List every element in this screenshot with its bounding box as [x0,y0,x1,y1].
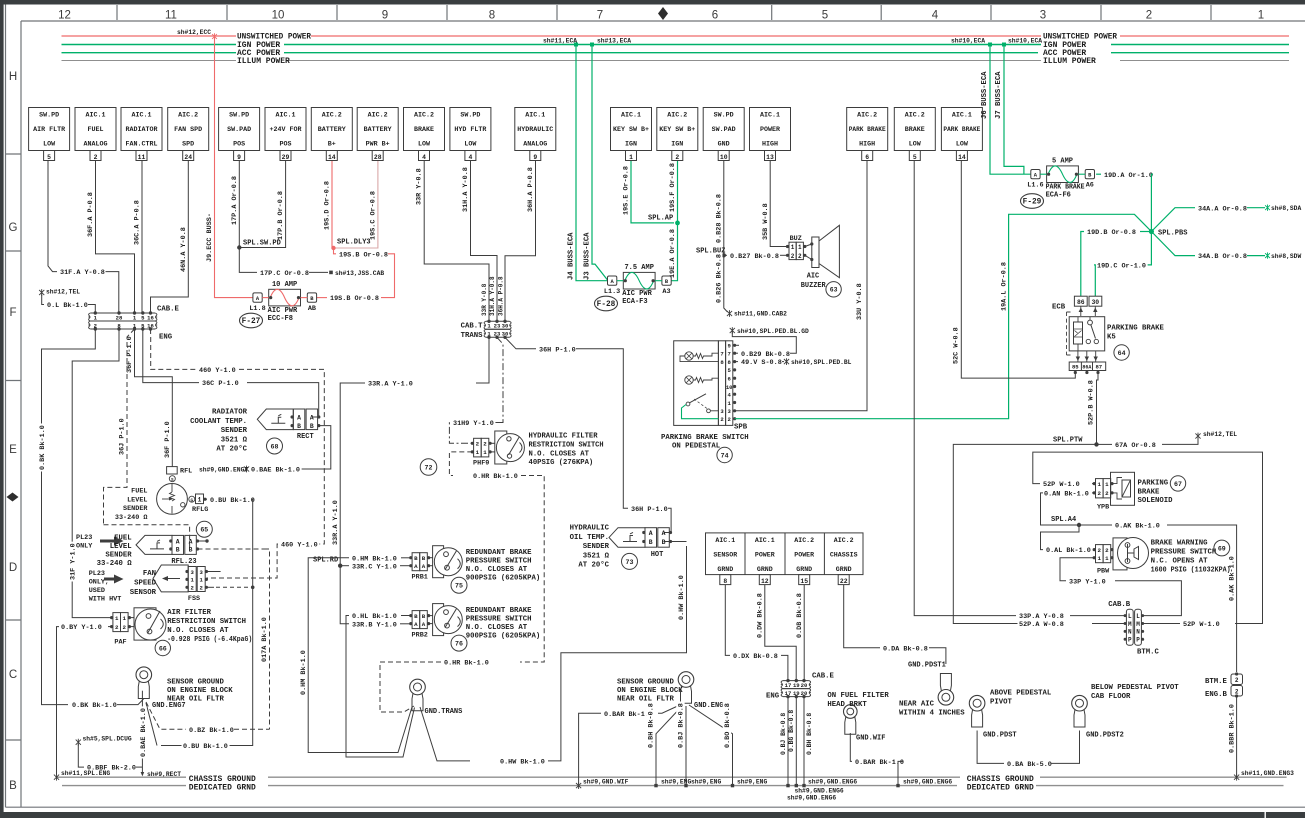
svg-text:POS: POS [280,141,292,148]
wire 0.AL to PBW pin2 [1093,549,1095,551]
label 52P W-1.0 right [1182,620,1222,628]
wire 0.HW to oil temp pin B [665,541,687,543]
node sh#9,GND.ENG6 markers (three wires) [786,784,789,787]
label 19D.A Or-1.0 [1103,170,1155,178]
wire 460 Y-1.0 dashed from CAB.E pin16 [151,329,197,369]
svg-text:SPL.PTW: SPL.PTW [1053,436,1083,444]
svg-text:28: 28 [116,314,123,321]
svg-text:30: 30 [1091,299,1099,306]
svg-text:PL23: PL23 [76,534,92,542]
relay K5 coil [1074,322,1083,344]
svg-text:B: B [189,546,193,553]
svg-text:5 AMP: 5 AMP [1052,158,1073,166]
svg-text:BELOW PEDESTAL PIVOT: BELOW PEDESTAL PIVOT [1091,684,1179,692]
circle ref 63 [826,282,841,297]
svg-text:sh#5,SPL.DCUG: sh#5,SPL.DCUG [83,736,132,743]
label 0.BA Bk-5.0 [1006,759,1054,767]
wire 0.BA to GND.PDST2 [1051,731,1080,764]
junction SPL.AP [675,221,680,226]
wire 33R.C Y-1.0 [340,565,349,567]
svg-text:N.O. CLOSES AT: N.O. CLOSES AT [167,627,229,635]
radiator coolant temp sender (68) RECT [257,409,293,430]
label 33R.A Y-1.0 [367,379,415,387]
svg-text:SW.PD: SW.PD [229,112,249,119]
svg-text:AIC.1: AIC.1 [525,112,545,119]
wire 19S.B Or-0.8 splice to corner (red) [334,248,337,254]
wire 0.BU Bk-1.0 from RFLG [205,498,207,500]
svg-text:PIVOT: PIVOT [990,698,1013,706]
wire SPL.PTW horizontal left [953,444,1096,623]
svg-text:0.HW Bk-1.0: 0.HW Bk-1.0 [500,759,545,767]
redundant brake pressure switch body (76) [433,604,444,636]
svg-text:FUEL: FUEL [131,488,147,496]
wire 52P W-1.0 into YPB pin1 [1092,483,1094,485]
wire 0.BA Bk-5.0 [977,731,1004,764]
svg-text:A: A [189,538,193,545]
circle ref 65 [196,521,212,537]
svg-text:N: N [1128,629,1132,636]
svg-text:17P.A Or-0.8: 17P.A Or-0.8 [231,176,239,225]
label 19D.B Or-0.8 [1086,228,1138,236]
svg-text:ANALOG: ANALOG [84,141,108,148]
svg-text:N.O. CLOSES AT: N.O. CLOSES AT [529,450,590,458]
svg-text:POWER: POWER [760,126,780,133]
ground terminal GND.ENG7 [136,667,152,683]
svg-text:KEY SW B+: KEY SW B+ [613,126,649,133]
wire 0.B26 Bk-0.8 to GND.CAB2 [724,255,728,312]
svg-text:0.DX Bk-0.8: 0.DX Bk-0.8 [733,653,778,661]
ground terminal GND.WIF [844,705,858,719]
label 0.B29 Bk-0.8 [740,349,792,357]
svg-text:SENSOR: SENSOR [713,552,737,559]
svg-text:ILLUM POWER: ILLUM POWER [1043,57,1096,66]
svg-text:1: 1 [115,615,119,622]
svg-text:AT 20°C: AT 20°C [216,445,247,454]
label 0.BU Bk-1.0 lower [182,742,230,750]
svg-text:PARK BRAKE: PARK BRAKE [849,126,886,133]
wire 17P.C Or-0.8 down from splice [239,248,257,273]
svg-text:900PSIG (6205KPA): 900PSIG (6205KPA) [466,575,540,583]
wire 0.HL left and down [346,616,415,758]
wire 31H9 Y-1.0 to PHF9 [449,423,501,444]
svg-text:PWR B+: PWR B+ [366,141,390,148]
svg-text:AT 20°C: AT 20°C [578,561,609,570]
svg-text:N.C. OPENS AT: N.C. OPENS AT [1151,558,1209,566]
svg-text:PRESSURE SWITCH: PRESSURE SWITCH [466,558,532,566]
svg-text:GND.PDST2: GND.PDST2 [1086,732,1124,740]
node sh#12,TEL marker left [39,289,44,296]
svg-text:L1.6: L1.6 [1027,182,1043,190]
svg-text:C: C [9,669,17,681]
svg-text:ECA-F3: ECA-F3 [622,298,647,306]
svg-text:LOW: LOW [43,141,55,148]
svg-text:SPL.A4: SPL.A4 [1051,516,1076,524]
wire 0.DW Bk-0.8 from POWER GRND pin12 [765,585,796,681]
svg-text:BATTERY: BATTERY [364,126,392,133]
svg-text:IGN: IGN [671,141,683,148]
node sh#9,RECT ref [141,772,145,776]
wire PHF9 pin1 to body [491,451,495,453]
node sh#8,SDA [1265,205,1270,211]
svg-text:sh#10,SPL.PED.BL: sh#10,SPL.PED.BL [791,359,852,366]
wire 52P W-1.0 from CAB.B pin M right [1144,623,1181,625]
wire 31F.A continues to CAB.E pin 28 [106,272,119,313]
svg-text:10 AMP: 10 AMP [272,281,297,289]
svg-text:GND.WIF: GND.WIF [856,735,885,743]
wire 67A to sh#12,TEL [1162,438,1198,444]
svg-text:FSS: FSS [188,595,200,603]
svg-text:PARKING: PARKING [1138,480,1169,488]
wire 0.BU diagonal into GND.ENG7 [146,703,157,746]
svg-text:AIC.1: AIC.1 [952,112,972,119]
svg-text:M: M [1136,621,1140,628]
wire 19S.F Or-0.8 from KEY SW B+ (AIC.2) [677,161,679,223]
svg-text:AIC.2: AIC.2 [414,112,434,119]
svg-text:PARK BRAKE: PARK BRAKE [1046,183,1085,191]
svg-text:33R.A Y-1.0: 33R.A Y-1.0 [332,500,340,545]
svg-text:sh#10,ECA: sh#10,ECA [1008,38,1042,45]
node sh#13,JSS.CAB [329,271,333,275]
node sh#10,SPL.PED.BL [784,358,789,365]
svg-text:63: 63 [830,287,838,294]
wire 0.HW Bk-1.0 from GND.TRANS [420,707,470,761]
connector SPB pin strip [718,341,725,426]
svg-text:F-27: F-27 [242,318,261,326]
wire 17P.B Or-0.8 from +24V FOR [239,161,285,248]
junction SPL.RD [338,564,342,568]
svg-text:sh#10,SPL.PED.BL.GD: sh#10,SPL.PED.BL.GD [737,328,809,335]
svg-text:A: A [414,621,418,628]
svg-text:31H.A Y-0.8: 31H.A Y-0.8 [489,276,496,316]
border frame dark bars [0,0,1305,5]
svg-text:34A.A Or-0.8: 34A.A Or-0.8 [1198,205,1247,213]
svg-text:0.B27 Bk-0.8: 0.B27 Bk-0.8 [730,253,779,261]
RFL connector box [167,467,178,474]
svg-text:2: 2 [1105,547,1109,554]
svg-text:0.BK Bk-1.0: 0.BK Bk-1.0 [39,425,47,470]
svg-text:19: 19 [793,690,800,697]
svg-text:HEAD BRKT: HEAD BRKT [827,701,867,709]
svg-text:33U Y-0.8: 33U Y-0.8 [856,283,864,320]
label 0.HW Bk-1.0 bottom [499,757,547,765]
wire 33R.A to PRB2 pin A [340,560,349,624]
wire 52P.A into CAB.B pin M [1092,623,1125,625]
wire 31F Y-1.0 from CAB.E pin8 [72,329,119,618]
svg-text:SPL.AP: SPL.AP [648,215,673,223]
svg-text:sh#11,GND.ENG3: sh#11,GND.ENG3 [1241,770,1294,777]
label 33P Y-1.0 [1068,577,1108,585]
wire PHF9 pins to body [491,442,495,444]
svg-text:64: 64 [1118,350,1126,357]
svg-text:RESTRICTION SWITCH: RESTRICTION SWITCH [529,441,604,449]
wire 33U Y-0.8 SPB pin3 to PARK BRAKE HIGH [735,161,867,411]
node sh#9,GND.ENG7 ref [244,466,249,473]
svg-text:PBW: PBW [1097,568,1110,576]
svg-text:20: 20 [801,690,808,697]
svg-text:15: 15 [800,578,808,585]
svg-text:0.L Bk-1.0: 0.L Bk-1.0 [47,302,88,310]
svg-text:P: P [1136,637,1140,644]
svg-text:sh#9,GND.ENG6: sh#9,GND.ENG6 [787,795,836,802]
svg-text:G: G [190,499,193,504]
connector YPB (parking brake solenoid) [1096,479,1104,498]
node sh#8,SDW [1265,252,1270,258]
wire 0.BBR Bk-1.0 [1236,696,1238,776]
svg-text:LEVEL: LEVEL [110,543,132,551]
svg-text:AIC PWR: AIC PWR [622,290,652,298]
relay K5 output arrows [1078,351,1096,362]
svg-text:3521 Ω: 3521 Ω [221,436,248,444]
svg-text:017A Bk-1.0: 017A Bk-1.0 [261,617,269,662]
wires PRB2 to body 2 [430,623,433,625]
svg-text:ABOVE PEDESTAL: ABOVE PEDESTAL [990,690,1051,698]
svg-text:ECB: ECB [1052,304,1066,312]
svg-text:AIC.1: AIC.1 [715,537,735,544]
svg-text:NEAR OIL FLTR: NEAR OIL FLTR [167,696,225,704]
svg-text:B: B [662,539,666,546]
connector PAF (air filter switch) [113,613,121,632]
ground terminal GND.PDST [969,695,985,711]
svg-text:0.BH Bk-0.8: 0.BH Bk-0.8 [806,713,813,755]
wire 0.HR dashed right/down [520,476,544,663]
svg-text:SPL.SW.PD: SPL.SW.PD [243,240,281,248]
wire 0.HM Bk-1.0 from PRB1 pin B [401,557,411,559]
svg-text:1: 1 [629,154,633,161]
relay K5 pin box 30 [1089,296,1102,306]
svg-text:P: P [1128,637,1132,644]
fuel level sender body (65) [169,476,175,482]
wire 0.B28 Bk-0.8 from SW.PAD GND [723,161,725,255]
svg-text:sh#8,SDA: sh#8,SDA [1271,205,1301,212]
svg-text:52P W-1.0: 52P W-1.0 [1183,621,1220,629]
wire 36F.A P-0.8 from FUEL [96,161,135,313]
svg-text:9: 9 [237,154,241,161]
svg-text:7: 7 [720,351,723,358]
svg-text:L1.3: L1.3 [604,288,620,296]
svg-text:33R.B Y-1.0: 33R.B Y-1.0 [352,621,397,629]
label 34A.B Or-0.8 [1197,252,1249,260]
svg-text:2: 2 [476,441,480,448]
grid column ticks [117,5,1211,20]
svg-text:29: 29 [282,154,290,161]
svg-text:0.HM Bk-1.0: 0.HM Bk-1.0 [300,650,308,695]
node sh#9,GND.ENG6 (WIF wire) [896,784,899,787]
svg-text:SENDER: SENDER [583,543,610,551]
svg-text:46N.A Y-0.8: 46N.A Y-0.8 [180,227,188,272]
label 31F.A Y-0.8 [59,268,107,276]
wires PRB1 to body 2 [430,565,433,567]
svg-text:0.HR Bk-1.0: 0.HR Bk-1.0 [473,473,518,481]
svg-text:85: 85 [1072,364,1079,371]
label 0.BZ Bk-1.0 dashed [188,725,236,733]
wire 0.B27 Bk-0.8 [724,254,727,256]
svg-text:B: B [414,613,418,620]
svg-text:1: 1 [1258,10,1264,22]
svg-text:0.AL Bk-1.0: 0.AL Bk-1.0 [1046,547,1091,555]
wire 0.HM left and down [308,558,412,753]
svg-text:12: 12 [58,10,71,22]
svg-text:69: 69 [1218,545,1226,552]
wire RFL.23 pin B dashed [198,548,265,550]
wire 52P W-1.0 loop [1033,452,1263,617]
svg-text:8: 8 [489,10,495,22]
label 0.AL Bk-1.0 [1045,546,1093,554]
connector block AIC.2 BRAKE LOW pin 4 [404,108,445,151]
connector blocks AIC.1/AIC.2 SENSOR POWER CHASSIS GRND [706,533,864,575]
svg-text:AIC.1: AIC.1 [276,112,296,119]
svg-text:23: 23 [494,331,501,338]
svg-text:A: A [297,414,301,421]
svg-text:AIC PWR: AIC PWR [268,307,298,315]
svg-text:POWER: POWER [755,552,775,559]
label 0.HR Bk-1.0 second [443,658,491,666]
wire 0.AL Bk-1.0 from SPL.A4 [1041,525,1080,550]
acc power bus (green) [62,52,237,54]
svg-text:11: 11 [165,10,177,22]
left diamond marker [7,493,19,502]
svg-text:L: L [1128,613,1132,620]
wire 19D.C to relay pin 30 [1094,265,1095,296]
svg-text:460 Y-1.0: 460 Y-1.0 [199,367,236,375]
svg-text:CAB.E: CAB.E [812,673,835,681]
svg-text:PARKING BRAKE: PARKING BRAKE [1107,325,1165,333]
wire PAF pins to switch [129,617,134,619]
svg-text:sh#11,SPL.ENG: sh#11,SPL.ENG [61,770,110,777]
svg-text:1: 1 [483,449,487,456]
svg-text:0.BAE Bk-1.0: 0.BAE Bk-1.0 [251,467,300,475]
wire 0.HR Bk-1.0 dashed from PHF9 pin1 [449,452,472,476]
svg-text:1: 1 [1098,555,1102,562]
svg-text:36J P-1.0: 36J P-1.0 [119,418,127,455]
ign power bus (green) [62,44,237,46]
wire 19D.B Or-0.8 (green) [1140,231,1151,233]
svg-text:0.BAR Bk-1.0: 0.BAR Bk-1.0 [855,759,904,767]
svg-text:2: 2 [1098,490,1102,497]
wire 36H P-1.0 last segment [665,508,672,532]
relay K5 input arrows [1081,306,1096,316]
label 0.BK Bk-1.0 horizontal [71,701,119,709]
svg-text:E: E [9,444,17,456]
wire 0.DA Bk-0.8 from CHASSIS GRND pin22 [844,585,880,648]
svg-text:86A: 86A [1082,365,1091,371]
wire 0.BAR to sh#9 GND.WIF [579,713,601,784]
svg-text:HIGH: HIGH [762,141,778,148]
label 0.AK Bk-1.0 [1114,521,1162,529]
svg-text:ECA-F6: ECA-F6 [1046,192,1071,200]
label 0.BAR Bk-1.0 left [603,709,655,717]
connector CAB.E / ENG (middle) [783,681,809,689]
svg-text:87: 87 [1095,364,1102,371]
svg-text:3: 3 [1040,10,1046,22]
node sh#5,SPL.DCUG [76,739,81,746]
svg-text:2: 2 [1105,490,1109,497]
svg-text:52P W-1.0: 52P W-1.0 [1043,481,1080,489]
connector block AIC.1 KEY SW B+ IGN pin 1 [611,108,652,151]
svg-text:M: M [1128,621,1132,628]
svg-text:TRANS: TRANS [461,332,484,340]
connector block SW.PD AIR FLTR LOW pin 5 [29,108,70,151]
wire 0.B29 Bk-0.8 from SPB pin7 [735,352,738,354]
svg-text:N: N [1136,629,1140,636]
svg-text:SENDER: SENDER [105,552,132,560]
svg-text:LOW: LOW [464,141,476,148]
svg-text:A6: A6 [1086,182,1094,190]
svg-text:FAN.CTRL: FAN.CTRL [126,141,158,148]
svg-text:4: 4 [932,10,939,22]
svg-text:0.HL Bk-1.0: 0.HL Bk-1.0 [352,613,397,621]
wire 0.AK Bk-1.0 right [1079,524,1112,526]
svg-text:6: 6 [712,10,718,22]
label 33P.A Y-0.8 [1018,612,1066,620]
label 19D.C Or-1.0 [1096,261,1148,269]
circle ref 76 [451,635,467,651]
svg-text:SW.PAD: SW.PAD [227,126,251,133]
svg-text:GRND: GRND [836,566,852,573]
label 36H P-1.0 lower [630,504,670,512]
svg-text:5: 5 [822,10,828,22]
connector block AIC.2 KEY SW B+ IGN pin 2 [657,108,698,151]
svg-text:J6 BUSS-ECA: J6 BUSS-ECA [981,71,989,119]
redundant brake pressure switch body (75) [433,546,444,578]
svg-text:POS: POS [233,141,245,148]
wire 36C.A P-0.8 from RADIATOR [141,161,143,313]
label 460 Y-1.0 dashed [198,365,238,373]
svg-text:HYDRAULIC FILTER: HYDRAULIC FILTER [529,433,599,441]
svg-text:ANALOG: ANALOG [523,141,547,148]
svg-text:AIC.2: AIC.2 [322,112,342,119]
svg-text:sh#9,ENG: sh#9,ENG [737,778,767,785]
svg-text:10: 10 [726,384,733,391]
hydraulic oil temp sender (73) HOT [609,528,645,548]
label 36C P-1.0 [201,379,241,387]
wire 19D.C Or-1.0 (green) [1146,232,1151,265]
label 19S.B Or-0.8 lower [329,294,381,302]
wire 33R.A Y-1.0 from CAB.T pin1 [476,337,489,383]
svg-text:0.AK Bk-1.0: 0.AK Bk-1.0 [1228,556,1236,601]
svg-text:J7 BUSS-ECA: J7 BUSS-ECA [995,71,1003,119]
svg-text:30: 30 [502,323,509,330]
wire 0.BBF join 0.BAE [136,766,142,768]
svg-text:0.DA Bk-0.8: 0.DA Bk-0.8 [883,645,928,653]
wire 34A.B to sh#8,SDW [1247,255,1265,257]
svg-text:19S.E Or-0.8: 19S.E Or-0.8 [623,166,631,215]
svg-text:PRESSURE SWITCH: PRESSURE SWITCH [1151,549,1217,557]
wire 36C P-1.0 to RECT pin A [247,383,319,417]
svg-text:J3 BUSS-ECA: J3 BUSS-ECA [583,232,591,280]
svg-text:A3: A3 [662,288,670,296]
wire 46N.A Y-0.8 from FAN SPD [151,161,189,313]
svg-text:-0.928 PSIG (-6.4KpaG): -0.928 PSIG (-6.4KpaG) [167,636,252,644]
wire J6 BUSS-ECA (green) [990,46,1031,174]
svg-text:19S.B Or-0.8: 19S.B Or-0.8 [330,295,379,303]
svg-text:0.BJ Bk-0.8: 0.BJ Bk-0.8 [780,713,787,755]
svg-text:19E.A Or-0.8: 19E.A Or-0.8 [669,229,677,278]
svg-text:RADIATOR: RADIATOR [212,409,248,417]
svg-text:sh#9,GND.WIF: sh#9,GND.WIF [583,778,629,785]
wire 0.B29 to SPL.PED.BL.GD [732,332,796,354]
svg-text:19A.L Or-0.8: 19A.L Or-0.8 [1000,262,1008,311]
circle ref 67 [1170,476,1185,491]
svg-text:YPB: YPB [1097,504,1109,512]
svg-text:ON ENGINE BLOCK: ON ENGINE BLOCK [617,687,683,695]
svg-text:33-240 Ω: 33-240 Ω [115,514,148,522]
fuse F-27 AIC PWR ECC-F8 10 AMP [253,293,262,302]
node sh#11,GND.CAB2 [727,310,732,317]
svg-text:A: A [422,563,426,570]
svg-text:36H P-1.0: 36H P-1.0 [539,346,576,354]
parking brake switch SPB box [674,341,719,426]
hydraulic filter restriction switch body (72) [495,431,507,464]
